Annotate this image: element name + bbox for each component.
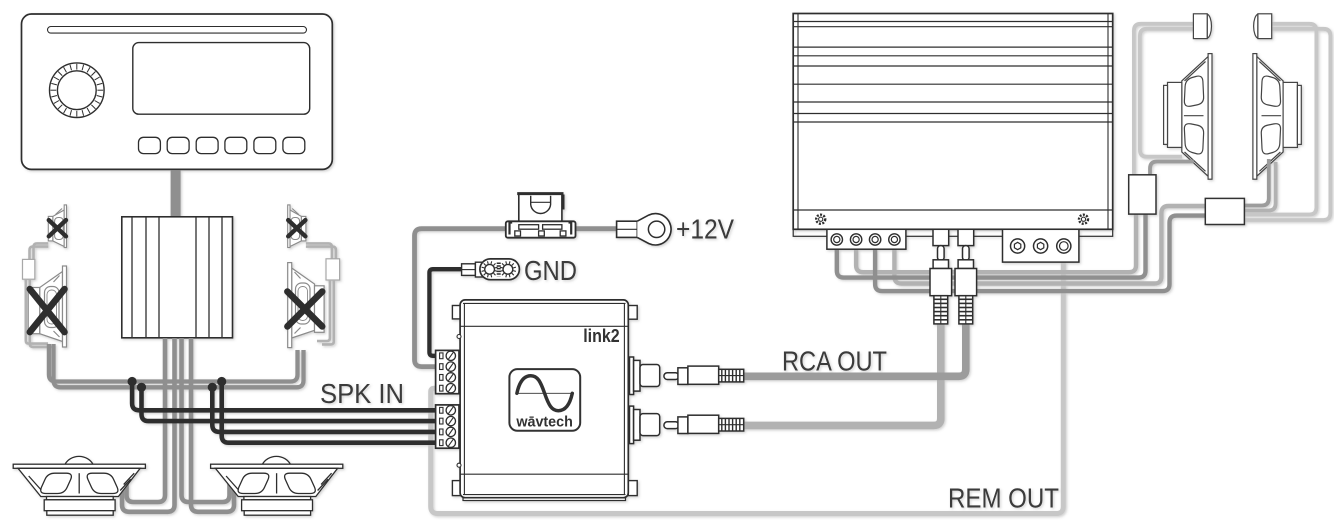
amp RCA plug R	[955, 246, 977, 324]
wire harness to right woofer (lead 1)	[182, 338, 230, 502]
fuse holder F1	[506, 194, 576, 238]
wavtech logo	[509, 369, 580, 431]
amp RCA input jacks	[933, 229, 949, 245]
right mid speaker (factory, disconnected)	[288, 263, 324, 348]
wire harness to left woofer (lead 1)	[127, 338, 166, 502]
head unit (car stereo)	[22, 14, 333, 169]
wire GND: ground lug to link2 ground terminal	[429, 269, 461, 356]
amp speaker output terminal block	[827, 229, 906, 249]
svg-text:REM OUT: REM OUT	[948, 483, 1059, 514]
crossover X2	[1205, 198, 1244, 224]
left crossover (factory)	[23, 259, 35, 279]
new right-side speaker 2 (faces left)	[1253, 54, 1301, 180]
amplifier	[793, 14, 1112, 237]
RCA cable bottom (link2 output 2 to amp input L)	[743, 322, 941, 425]
X mark over left mid speaker	[30, 289, 65, 332]
wire tweeter T1 to crossover X1 (lead a)	[1134, 24, 1194, 176]
wire harness to left woofer (lead 2)	[122, 338, 175, 512]
wire head unit to harness	[171, 170, 181, 217]
new right-side speaker 1 (faces right)	[1164, 54, 1212, 180]
wire factory speaker run left-to-right (bottom)	[54, 344, 304, 387]
right factory crossover	[326, 259, 340, 280]
X mark over right mid speaker	[287, 292, 322, 327]
svg-text:GND: GND	[524, 255, 577, 286]
link2 power terminal block (+12V GND REM)	[436, 350, 459, 393]
wire speaker S2 to crossover X2 (lead a)	[1244, 159, 1269, 206]
RCA cable top (link2 output 1 to amp input R)	[743, 322, 966, 376]
svg-text:wāvtech: wāvtech	[515, 413, 572, 430]
link2 RCA output jack 2 with plug	[630, 406, 744, 444]
wire tweeter T1 to crossover X1 (lead b)	[1140, 29, 1194, 157]
wire REM: link2 REM-out terminal to amplifier remote terminal	[431, 261, 1064, 514]
svg-text:link2: link2	[583, 326, 620, 346]
new tweeter T1	[1193, 14, 1211, 39]
svg-text:+12V: +12V	[676, 214, 734, 245]
svg-text:RCA OUT: RCA OUT	[782, 346, 887, 377]
link2 RCA output jack 1 with plug	[630, 357, 744, 395]
amp power terminal block	[1003, 229, 1079, 262]
wire speaker-tap to link2 SPK IN 2	[142, 387, 438, 421]
link2 line output converter U1	[452, 300, 637, 501]
wire amp speaker output D (light) to crossover X2	[894, 206, 1206, 284]
wire harness to right woofer (lead 2)	[191, 338, 234, 512]
wire speaker-tap to link2 SPK IN 4	[222, 382, 437, 443]
head unit volume knob	[50, 63, 105, 118]
left woofer (factory, retained)	[13, 456, 145, 515]
wire speaker-tap to link2 SPK IN 3	[212, 387, 437, 432]
X mark over right tweeter	[288, 220, 305, 236]
wire factory speaker run left-to-right (top)	[49, 344, 298, 382]
wire right tweeter to crossover (2 leads)	[306, 243, 336, 259]
amp RCA plug L	[930, 246, 952, 324]
crossover X1	[1129, 175, 1156, 214]
ground lug connector	[462, 259, 520, 280]
wire amp speaker output C (medium) to crossover X2	[875, 216, 1206, 292]
wire tweeter T2 to crossover X2 (lead b)	[1244, 29, 1331, 220]
wire tweeter T2 to crossover X2 (lead a)	[1244, 24, 1317, 215]
link2 SPK IN terminal block	[436, 405, 459, 448]
right tweeter (factory, disconnected)	[288, 205, 306, 248]
wire speaker S2 to crossover X2 (lead b)	[1244, 162, 1276, 211]
+12V ring terminal	[617, 214, 671, 245]
wire right crossover to right mid speaker	[317, 280, 334, 344]
wire left crossover to left mid speaker	[26, 279, 53, 347]
wire left tweeter to crossover (2 leads)	[30, 243, 49, 260]
wire speaker S1 to crossover X1	[1150, 162, 1194, 177]
svg-text:SPK IN: SPK IN	[320, 378, 404, 409]
amp mounting screws	[816, 215, 1088, 224]
junction node dots	[128, 377, 227, 392]
wire amp speaker output A (medium) to crossover X1	[837, 213, 1146, 278]
wire amp speaker output B (light) to crossover X1	[856, 213, 1136, 272]
head unit buttons	[139, 137, 161, 153]
X mark over left tweeter	[49, 220, 66, 236]
head unit CD slot	[48, 27, 307, 34]
harness connector block	[122, 217, 233, 338]
left tweeter (factory, disconnected)	[48, 205, 66, 248]
right woofer (factory, retained)	[211, 456, 343, 515]
head unit display	[133, 43, 310, 115]
wire speaker-tap to link2 SPK IN 1	[132, 382, 437, 411]
left mid speaker (factory, disconnected)	[28, 266, 66, 347]
new tweeter T2	[1254, 14, 1272, 39]
wire +12V: battery ring terminal through fuse to link2 power input	[415, 229, 617, 367]
